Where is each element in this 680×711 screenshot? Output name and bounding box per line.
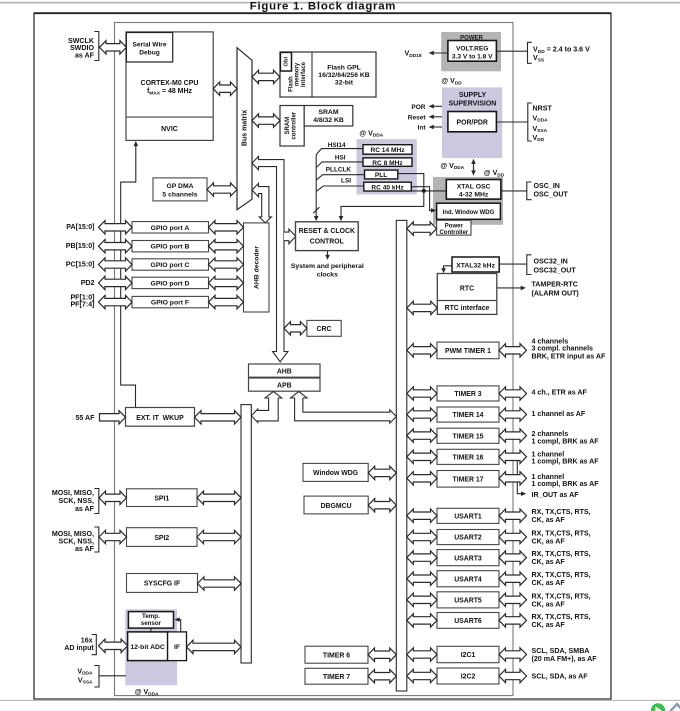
svg-text:CONTROL: CONTROL bbox=[310, 238, 344, 245]
svg-text:I2C2: I2C2 bbox=[461, 674, 476, 681]
arrow USART6 left bbox=[407, 614, 437, 627]
arrow SPI1 to left channel bbox=[197, 491, 241, 504]
svg-text:GPIO port D: GPIO port D bbox=[151, 280, 190, 287]
svg-text:SRAM: SRAM bbox=[318, 109, 338, 116]
arrow PB pins bbox=[99, 240, 133, 253]
wire IF to temp sensor bbox=[176, 620, 180, 632]
wire temp sensor stub bbox=[150, 628, 152, 632]
arrow GPIO D to AHB decoder bbox=[209, 276, 244, 289]
svg-text:SRAM: SRAM bbox=[285, 117, 291, 135]
svg-text:OSC32_IN: OSC32_IN bbox=[534, 258, 568, 266]
block USART2 bbox=[437, 530, 499, 545]
svg-text:4-32 MHz: 4-32 MHz bbox=[459, 192, 489, 199]
svg-text:controller: controller bbox=[292, 111, 298, 139]
bracket VDD VSS pins bbox=[528, 42, 532, 63]
block TIMER 3 bbox=[437, 386, 499, 401]
bottom right icons bbox=[651, 703, 665, 711]
svg-text:GPIO port C: GPIO port C bbox=[151, 262, 190, 269]
svg-text:AHB decoder: AHB decoder bbox=[254, 246, 261, 289]
svg-text:PB[15:0]: PB[15:0] bbox=[66, 242, 95, 250]
svg-text:AD input: AD input bbox=[64, 644, 94, 652]
supply domain double arrow bbox=[473, 161, 475, 173]
svg-text:PA[15:0]: PA[15:0] bbox=[66, 223, 94, 231]
arrow TIMER 3 left bbox=[407, 387, 437, 400]
arrow GPIO C to AHB decoder bbox=[209, 258, 244, 271]
svg-text:CK, as AF: CK, as AF bbox=[532, 558, 566, 566]
block RC 40 kHz bbox=[364, 182, 412, 191]
arrow PF pins bbox=[99, 295, 133, 308]
bus APB bridge to right channel bbox=[291, 391, 397, 423]
block USART3 bbox=[437, 550, 499, 566]
arrow TIMER 16 pins bbox=[499, 450, 527, 463]
svg-text:TIMER 3: TIMER 3 bbox=[454, 391, 481, 398]
svg-text:GPIO port F: GPIO port F bbox=[151, 300, 189, 307]
svg-text:HSI14: HSI14 bbox=[328, 142, 346, 149]
arrow GPIO B to AHB decoder bbox=[209, 240, 244, 253]
svg-text:12-bit ADC: 12-bit ADC bbox=[130, 644, 165, 651]
arrow SPI2 to left channel bbox=[197, 530, 241, 543]
block XTAL32 kHz bbox=[452, 257, 499, 272]
arrow TIMER6 to right channel bbox=[368, 648, 396, 661]
svg-text:Reset: Reset bbox=[408, 114, 427, 121]
block Serial Wire Debug bbox=[126, 33, 172, 63]
wire IR_OUT bbox=[517, 460, 523, 494]
svg-text:VOLT.REG: VOLT.REG bbox=[456, 45, 488, 52]
block PLL bbox=[365, 170, 398, 179]
svg-text:SYSCFG IF: SYSCFG IF bbox=[144, 581, 180, 588]
arrow I2C1 pins bbox=[499, 648, 527, 661]
wire EXT.IT interrupt to NVIC bbox=[121, 143, 136, 408]
block EXT IT WKUP bbox=[126, 408, 195, 427]
block AHB bbox=[249, 364, 321, 377]
wire XTAL32 to OSC32 pins bbox=[499, 263, 527, 265]
svg-text:CORTEX-M0 CPU: CORTEX-M0 CPU bbox=[141, 80, 199, 87]
block SYSCFG IF bbox=[127, 574, 198, 593]
arrow TIMER 17 left bbox=[407, 472, 437, 485]
arrow USART5 pins bbox=[499, 593, 527, 606]
arrow USART2 pins bbox=[499, 530, 527, 543]
block GPIO port D bbox=[132, 277, 209, 288]
block TIMER 17 bbox=[437, 471, 499, 488]
arrow GPIO A to AHB decoder bbox=[209, 221, 244, 234]
svg-text:CK, as AF: CK, as AF bbox=[532, 516, 566, 524]
svg-text:memory: memory bbox=[295, 62, 301, 86]
wire VDDA VSSA to ADC block bbox=[99, 675, 126, 677]
svg-text:GPIO port B: GPIO port B bbox=[151, 244, 190, 251]
block TIMER 16 bbox=[437, 449, 499, 464]
svg-text:TIMER 6: TIMER 6 bbox=[323, 653, 350, 660]
svg-text:Power: Power bbox=[445, 223, 464, 229]
svg-text:MOSI, MISO,: MOSI, MISO, bbox=[52, 489, 94, 497]
arrow USART3 pins bbox=[499, 551, 527, 564]
svg-text:CRC: CRC bbox=[317, 326, 332, 333]
arrow I2C1 left bbox=[407, 648, 437, 661]
block VOLT.REG bbox=[448, 41, 497, 62]
svg-text:APB: APB bbox=[277, 382, 292, 389]
arrow ADC IF to left channel bbox=[187, 640, 242, 653]
block CRC bbox=[307, 320, 341, 336]
svg-text:sensor: sensor bbox=[141, 620, 162, 627]
wire Reset bbox=[431, 116, 443, 118]
wire RTC to TAMPER bbox=[497, 287, 524, 289]
svg-text:RTC: RTC bbox=[460, 285, 474, 292]
svg-text:IR_OUT as AF: IR_OUT as AF bbox=[532, 491, 580, 499]
arrow AD input pins bbox=[99, 639, 128, 652]
arrow USART2 left bbox=[407, 530, 437, 543]
arrow USART3 left bbox=[407, 551, 437, 564]
block SRAM bbox=[304, 106, 353, 127]
svg-text:1 compl, BRK as AF: 1 compl, BRK as AF bbox=[532, 458, 600, 466]
arrow TIMER 14 left bbox=[407, 408, 437, 421]
svg-text:System and peripheral: System and peripheral bbox=[291, 263, 364, 270]
wire LSI bbox=[316, 186, 364, 191]
wire RC40 to IWDG bbox=[411, 187, 434, 211]
svg-text:Controller: Controller bbox=[439, 230, 468, 236]
svg-text:TIMER 16: TIMER 16 bbox=[452, 455, 483, 462]
svg-text:Obl: Obl bbox=[283, 56, 289, 66]
svg-text:TIMER 17: TIMER 17 bbox=[452, 477, 483, 484]
arrow power controller bbox=[407, 222, 437, 235]
arrow TIMER 3 pins bbox=[499, 387, 527, 400]
wire POR bbox=[431, 105, 443, 107]
block RC 8 MHz bbox=[363, 158, 412, 166]
block Window WDG bbox=[303, 463, 368, 481]
svg-text:HSI: HSI bbox=[335, 155, 346, 162]
arrow GP DMA to bus matrix bbox=[207, 183, 237, 196]
svg-text:TIMER 14: TIMER 14 bbox=[452, 412, 483, 419]
svg-text:PLL: PLL bbox=[375, 172, 387, 179]
SUPPLY SUPERVISION purple block bbox=[442, 87, 502, 158]
POWER gray block bbox=[441, 32, 501, 71]
bracket OSC32 pins bbox=[527, 255, 532, 275]
wire VOLT.REG to VDD18 bbox=[431, 52, 448, 54]
wire RC40 to XTAL node bbox=[411, 190, 446, 192]
arrow PD pins bbox=[99, 276, 133, 289]
arrow EXT IT to left channel bbox=[195, 411, 242, 424]
svg-text:SCL, SDA, as AF: SCL, SDA, as AF bbox=[532, 673, 589, 681]
arrow USART1 pins bbox=[499, 509, 527, 522]
svg-text:4/8/32 KB: 4/8/32 KB bbox=[313, 117, 344, 124]
wire XTAL OSC to OSC pins bbox=[501, 190, 527, 192]
block SPI1 bbox=[127, 489, 198, 507]
svg-text:RESET & CLOCK: RESET & CLOCK bbox=[299, 228, 355, 235]
arrow DBGMCU to right channel bbox=[368, 499, 396, 512]
arrow USART6 pins bbox=[499, 614, 527, 627]
svg-text:GPIO port A: GPIO port A bbox=[151, 225, 190, 232]
svg-text:RX, TX,CTS, RTS,: RX, TX,CTS, RTS, bbox=[532, 508, 591, 516]
svg-text:as AF: as AF bbox=[75, 51, 95, 59]
svg-text:POR: POR bbox=[411, 104, 425, 111]
bracket SWCLK pins bbox=[94, 32, 99, 61]
arrow bus matrix to SRAM controller bbox=[252, 114, 280, 127]
svg-text:16/32/64/256 KB: 16/32/64/256 KB bbox=[318, 72, 369, 79]
bus branch to reset and clock control bbox=[284, 229, 296, 244]
svg-text:LSI: LSI bbox=[341, 178, 351, 185]
svg-text:EXT. IT WKUP: EXT. IT WKUP bbox=[136, 415, 184, 422]
svg-text:3.3 V to 1.8 V: 3.3 V to 1.8 V bbox=[452, 54, 493, 61]
left APB peripheral channel bbox=[241, 405, 251, 663]
bus from bus matrix to AHB decoder bbox=[252, 183, 271, 223]
block TIMER 15 bbox=[437, 428, 499, 443]
svg-text:OSC_OUT: OSC_OUT bbox=[534, 191, 569, 199]
svg-text:4 ch., ETR as AF: 4 ch., ETR as AF bbox=[532, 389, 588, 397]
svg-text:CK, as AF: CK, as AF bbox=[532, 579, 566, 587]
block CORTEX-M0 CPU bbox=[126, 32, 213, 140]
block Power Controller bbox=[437, 220, 471, 235]
arrow window WDG to right channel bbox=[368, 466, 396, 479]
svg-text:IF: IF bbox=[174, 644, 180, 651]
svg-text:SCK, NSS,: SCK, NSS, bbox=[59, 497, 95, 505]
arrow CPU to bus matrix bbox=[213, 82, 237, 95]
svg-text:Flash: Flash bbox=[288, 76, 294, 92]
wire reset-clock to system clocks bbox=[327, 251, 329, 258]
XTAL OSC gray block bbox=[433, 177, 503, 225]
svg-text:RX, TX,CTS, RTS,: RX, TX,CTS, RTS, bbox=[532, 530, 591, 538]
svg-text:RX, TX,CTS, RTS,: RX, TX,CTS, RTS, bbox=[532, 550, 591, 558]
svg-text:(ALARM OUT): (ALARM OUT) bbox=[532, 290, 580, 298]
arrow PWM TIMER 1 left bbox=[407, 344, 437, 357]
svg-text:1 compl, BRK as AF: 1 compl, BRK as AF bbox=[532, 438, 600, 446]
arrow USART5 left bbox=[407, 593, 437, 606]
block SRAM controller bbox=[280, 106, 304, 147]
right APB peripheral channel bbox=[396, 220, 407, 691]
wire HSI bbox=[316, 162, 363, 168]
svg-text:SUPERVISION: SUPERVISION bbox=[449, 101, 497, 108]
arrow USART4 left bbox=[407, 572, 437, 585]
svg-text:Debug: Debug bbox=[139, 50, 160, 57]
svg-text:CK, as AF: CK, as AF bbox=[532, 538, 566, 546]
svg-text:CK, as AF: CK, as AF bbox=[532, 621, 566, 629]
svg-text:RX, TX,CTS, RTS,: RX, TX,CTS, RTS, bbox=[532, 571, 591, 579]
arrow bus matrix to flash interface bbox=[252, 70, 280, 83]
svg-text:3 compl. channels: 3 compl. channels bbox=[532, 345, 594, 353]
arrow TIMER 16 left bbox=[407, 450, 437, 463]
wire POR/PDR to NRST pins bbox=[497, 121, 528, 123]
svg-text:RX, TX,CTS, RTS,: RX, TX,CTS, RTS, bbox=[532, 613, 591, 621]
svg-text:USART5: USART5 bbox=[454, 598, 482, 605]
block TIMER 6 bbox=[305, 646, 368, 663]
block 12-bit ADC bbox=[128, 632, 168, 661]
svg-text:AHB: AHB bbox=[277, 368, 292, 375]
block PWM TIMER 1 bbox=[437, 342, 499, 359]
svg-text:POR/PDR: POR/PDR bbox=[456, 119, 487, 126]
arrow TIMER 14 pins bbox=[499, 408, 527, 421]
svg-text:Window WDG: Window WDG bbox=[313, 470, 358, 477]
svg-text:PF[7:4]: PF[7:4] bbox=[70, 301, 94, 309]
svg-text:I2C1: I2C1 bbox=[461, 652, 476, 659]
svg-text:OSC32_OUT: OSC32_OUT bbox=[534, 266, 577, 274]
svg-text:SPI2: SPI2 bbox=[154, 535, 169, 542]
svg-text:as AF: as AF bbox=[75, 545, 95, 553]
block Obl bbox=[280, 52, 291, 71]
svg-text:PC[15:0]: PC[15:0] bbox=[66, 260, 95, 268]
svg-text:Ind. Window WDG: Ind. Window WDG bbox=[443, 210, 495, 216]
svg-text:1 compl, BRK as AF: 1 compl, BRK as AF bbox=[532, 480, 600, 488]
block GPIO port A bbox=[132, 222, 209, 233]
wire PLLCLK bbox=[316, 175, 364, 180]
block USART6 bbox=[437, 613, 499, 629]
block GPIO port C bbox=[132, 259, 209, 270]
svg-text:USART3: USART3 bbox=[454, 555, 482, 562]
block ADC IF bbox=[168, 632, 187, 661]
svg-text:DBGMCU: DBGMCU bbox=[321, 503, 352, 510]
clock sources purple block bbox=[357, 139, 417, 194]
svg-text:Figure 1. Block diagram: Figure 1. Block diagram bbox=[250, 0, 396, 12]
bracket NRST pins bbox=[528, 103, 532, 141]
block GPIO port F bbox=[132, 296, 209, 307]
svg-text:RC 8 MHz: RC 8 MHz bbox=[372, 160, 403, 167]
bus width slash bbox=[313, 207, 319, 213]
svg-text:55 AF: 55 AF bbox=[75, 414, 95, 422]
svg-text:XTAL32 kHz: XTAL32 kHz bbox=[456, 262, 495, 269]
svg-text:Flash GPL: Flash GPL bbox=[327, 64, 361, 71]
arrow I2C2 left bbox=[407, 669, 437, 682]
svg-text:5 channels: 5 channels bbox=[162, 191, 197, 198]
bracket SPI1 pins bbox=[94, 489, 99, 514]
block RC 14 MHz bbox=[363, 145, 412, 155]
svg-text:SPI1: SPI1 bbox=[154, 495, 169, 502]
wire PLL output bbox=[398, 174, 424, 191]
block Temp sensor bbox=[128, 612, 173, 629]
block GPIO port B bbox=[132, 241, 209, 252]
arrow RTC interface bbox=[407, 301, 438, 314]
svg-text:as AF: as AF bbox=[75, 505, 95, 513]
page bottom rule bbox=[0, 699, 680, 701]
ADC purple block bbox=[125, 609, 177, 685]
arrow SPI1 pins bbox=[99, 491, 127, 504]
AHB system bus from bus matrix to AHB-APB bridge bbox=[252, 156, 288, 361]
bus left channel to APB bridge bbox=[251, 391, 281, 422]
arrow GPIO F to AHB decoder bbox=[209, 295, 244, 308]
svg-text:32-bit: 32-bit bbox=[335, 80, 354, 87]
wire Int bbox=[431, 126, 443, 128]
arrow USART4 pins bbox=[499, 572, 527, 585]
svg-text:TIMER 7: TIMER 7 bbox=[323, 674, 350, 681]
svg-text:USART2: USART2 bbox=[454, 535, 482, 542]
block SPI2 bbox=[127, 528, 198, 547]
block USART1 bbox=[437, 508, 499, 523]
block TIMER 14 bbox=[437, 407, 499, 422]
block flash memory interface bbox=[280, 52, 376, 97]
page top rule bbox=[0, 2, 680, 4]
svg-text:CK, as AF: CK, as AF bbox=[532, 600, 566, 608]
svg-text:OSC_IN: OSC_IN bbox=[534, 182, 560, 190]
svg-text:SUPPLY: SUPPLY bbox=[459, 92, 487, 99]
arrow PC pins bbox=[99, 258, 133, 271]
block DBGMCU bbox=[304, 496, 368, 514]
svg-text:USART6: USART6 bbox=[454, 618, 482, 625]
block RTC bbox=[437, 274, 497, 315]
svg-text:TAMPER-RTC: TAMPER-RTC bbox=[532, 281, 578, 289]
svg-text:NVIC: NVIC bbox=[161, 126, 178, 133]
block RESET and CLOCK CONTROL bbox=[296, 222, 359, 251]
arrow PA pins bbox=[99, 221, 133, 234]
arrow TIMER 17 pins bbox=[499, 472, 527, 485]
svg-text:TIMER 15: TIMER 15 bbox=[452, 433, 483, 440]
block Ind Window WDG bbox=[437, 203, 501, 219]
svg-text:Int: Int bbox=[418, 125, 427, 132]
bracket AD input pins bbox=[92, 635, 97, 655]
MCU boundary box bbox=[115, 23, 514, 696]
svg-text:Bus matrix: Bus matrix bbox=[242, 110, 249, 146]
svg-text:RC 14 MHz: RC 14 MHz bbox=[370, 147, 405, 154]
svg-text:PWM TIMER 1: PWM TIMER 1 bbox=[445, 348, 491, 355]
svg-text:USART4: USART4 bbox=[454, 576, 482, 583]
svg-text:clocks: clocks bbox=[317, 271, 338, 278]
wire HSI14 bbox=[316, 149, 363, 155]
arrow TIMER7 to right channel bbox=[368, 670, 396, 683]
node clock junction bbox=[422, 189, 426, 193]
arrow I2C2 pins bbox=[499, 669, 527, 682]
arrow SPI2 pins bbox=[99, 530, 127, 543]
svg-text:PLLCLK: PLLCLK bbox=[326, 167, 352, 174]
arrow SWD pins bbox=[100, 41, 127, 54]
block XTAL OSC bbox=[446, 180, 501, 200]
arrow TIMER 15 left bbox=[407, 429, 437, 442]
svg-text:GP DMA: GP DMA bbox=[166, 183, 193, 190]
wire XTAL32 to RTC bbox=[444, 266, 452, 272]
svg-text:RX, TX,CTS, RTS,: RX, TX,CTS, RTS, bbox=[532, 592, 591, 600]
block I2C2 bbox=[437, 668, 499, 684]
arrow CRC to system bus bbox=[284, 322, 307, 335]
bus matrix bbox=[237, 48, 252, 210]
block APB bbox=[249, 378, 321, 391]
svg-text:1 channel as AF: 1 channel as AF bbox=[532, 410, 586, 418]
block GP DMA bbox=[153, 178, 207, 201]
block TIMER 7 bbox=[305, 668, 368, 684]
block POR PDR bbox=[448, 112, 497, 132]
block USART4 bbox=[437, 571, 499, 587]
block USART5 bbox=[437, 592, 499, 608]
svg-text:Serial Wire: Serial Wire bbox=[132, 41, 166, 48]
svg-text:USART1: USART1 bbox=[454, 514, 482, 521]
block AHB decoder bbox=[244, 223, 270, 312]
svg-text:NRST: NRST bbox=[533, 104, 553, 112]
bracket SPI2 pins bbox=[94, 527, 99, 552]
title underline bbox=[34, 12, 611, 14]
svg-text:XTAL OSC: XTAL OSC bbox=[457, 183, 491, 190]
svg-text:RTC interface: RTC interface bbox=[445, 305, 490, 312]
arrow 55 AF to EXT IT bbox=[100, 411, 126, 424]
arrow USART1 left bbox=[407, 509, 437, 522]
block I2C1 bbox=[437, 646, 499, 662]
arrow PWM TIMER 1 pins bbox=[499, 344, 527, 357]
arrow TIMER 15 pins bbox=[499, 429, 527, 442]
wire XTAL to reset-clock-control bbox=[341, 191, 424, 219]
svg-text:Temp.: Temp. bbox=[142, 613, 160, 620]
svg-text:SCL, SDA, SMBA: SCL, SDA, SMBA bbox=[532, 647, 590, 655]
svg-text:PD2: PD2 bbox=[81, 279, 95, 287]
svg-text:RC 40 kHz: RC 40 kHz bbox=[371, 185, 404, 192]
svg-text:interface: interface bbox=[301, 61, 307, 87]
wire VOLT.REG to VDD pins bbox=[497, 50, 528, 52]
clock bus to reset-clock-control bbox=[315, 155, 317, 220]
bracket OSC pins bbox=[527, 182, 532, 200]
svg-text:BRK, ETR input as AF: BRK, ETR input as AF bbox=[532, 353, 606, 361]
arrow SYSCFG to left channel bbox=[198, 577, 242, 590]
svg-text:(20 mA FM+), as AF: (20 mA FM+), as AF bbox=[532, 655, 598, 663]
bracket VDDA VSSA pins bbox=[94, 666, 99, 688]
